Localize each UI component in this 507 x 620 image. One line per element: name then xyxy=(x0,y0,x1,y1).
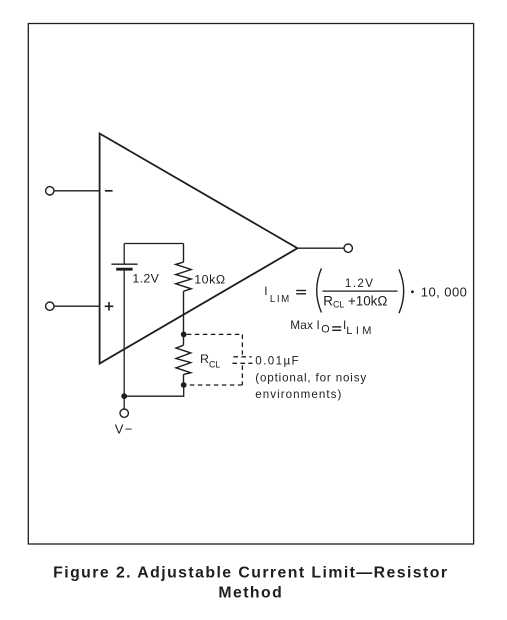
svg-text:10, 000: 10, 000 xyxy=(421,285,468,300)
svg-text:0.01µF: 0.01µF xyxy=(255,354,300,367)
formula ILIM xyxy=(264,268,467,313)
wire top rail xyxy=(124,243,183,245)
svg-text:Max I: Max I xyxy=(290,318,320,332)
svg-text:O: O xyxy=(321,323,329,335)
formula Max IO xyxy=(290,318,375,337)
op-amp U1 minus pin label xyxy=(105,190,113,192)
wire output xyxy=(298,247,344,249)
svg-text:Figure 2. Adjustable Current L: Figure 2. Adjustable Current Limit—Resis… xyxy=(53,565,448,582)
svg-text:1.2V: 1.2V xyxy=(132,271,159,285)
non-inverting input terminal xyxy=(46,302,54,310)
op-amp U1 plus pin label xyxy=(105,302,114,311)
op-amp U1 xyxy=(100,134,298,364)
svg-text:RCL +10kΩ: RCL +10kΩ xyxy=(323,293,387,309)
svg-text:V−: V− xyxy=(115,422,134,437)
label 0.01uF note xyxy=(255,354,367,401)
svg-text:LIM: LIM xyxy=(270,294,291,305)
svg-text:I: I xyxy=(264,284,267,298)
node junction V- xyxy=(121,393,127,399)
battery B1 xyxy=(111,244,137,270)
node junction B xyxy=(181,382,187,388)
svg-text:(optional, for noisy: (optional, for noisy xyxy=(255,372,367,385)
inverting input terminal xyxy=(46,187,54,195)
svg-text:LIM: LIM xyxy=(346,325,375,337)
svg-text:Method: Method xyxy=(218,584,283,601)
wire bottom rail xyxy=(124,385,184,396)
output terminal xyxy=(344,244,352,252)
wire non-inverting input xyxy=(54,305,99,307)
capacitor C1 dashed optional branch xyxy=(187,334,253,385)
resistor R1 10k xyxy=(176,244,192,335)
svg-text:environments): environments) xyxy=(255,388,342,401)
resistor RCL xyxy=(176,334,191,385)
wire battery to bottom rail xyxy=(123,271,125,397)
terminal V- xyxy=(120,409,128,417)
wire V- stub xyxy=(123,396,125,409)
node junction A xyxy=(181,332,187,338)
svg-text:10kΩ: 10kΩ xyxy=(194,272,225,286)
wire inverting input xyxy=(54,190,99,192)
svg-text:1.2V: 1.2V xyxy=(345,277,374,290)
